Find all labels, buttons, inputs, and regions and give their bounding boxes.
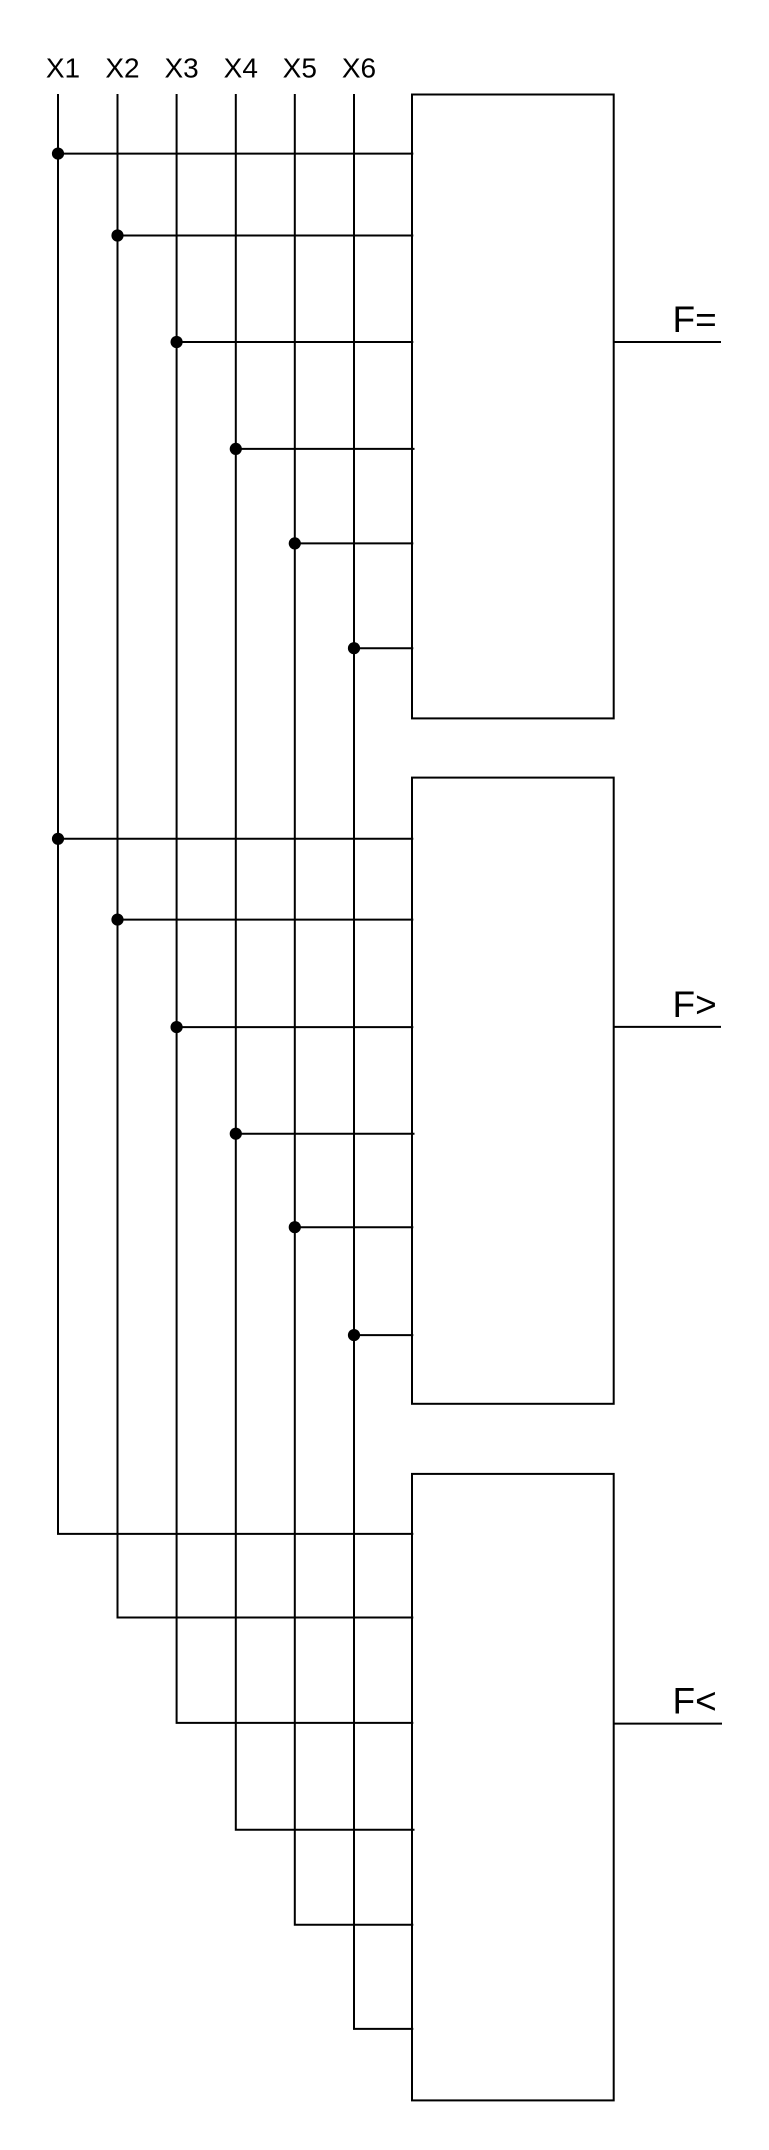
wire X5: vertical bus with elbow into U3 [295,94,414,1925]
junction dot X2/U1 [111,229,123,241]
junction dot X3/U1 [171,336,183,348]
junction dot X6/U1 [348,642,360,654]
wire U3 output [614,1723,722,1725]
junction dot X5/U2 [289,1221,301,1233]
svg-text:X2: X2 [105,52,139,83]
svg-text:F<: F< [673,1681,717,1722]
junction dot X1/U1 [52,148,64,160]
wire U2 input X6 [354,1334,413,1336]
svg-text:F=: F= [673,299,717,340]
svg-text:X3: X3 [164,52,198,83]
svg-text:X6: X6 [342,52,376,83]
svg-text:X1: X1 [46,52,80,83]
wire X1: vertical bus with elbow into U3 [58,94,413,1534]
svg-text:X5: X5 [283,52,317,83]
junction dot X2/U2 [111,914,123,926]
junction dot X6/U2 [348,1329,360,1341]
wire X4: vertical bus with elbow into U3 [236,94,415,1830]
wire U2 input X3 [177,1026,414,1028]
wire U1 input X2 [118,235,414,237]
wire U1 input X3 [177,341,414,343]
wire U1 input X4 [236,448,415,450]
wire U1 input X5 [295,542,414,544]
junction dot X3/U2 [171,1021,183,1033]
junction dot X4/U2 [230,1128,242,1140]
svg-text:F>: F> [673,984,717,1025]
junction dot X5/U1 [289,537,301,549]
wire U2 input X1 [58,838,413,840]
wire X3: vertical bus with elbow into U3 [177,94,414,1723]
comparator block U3 (F&lt;) [412,1474,614,2100]
junction dot X4/U1 [230,443,242,455]
wire U2 input X5 [295,1226,414,1228]
wire U2 input X4 [236,1133,415,1135]
wire U1 input X1 [58,153,413,155]
comparator block U1 (F=) [412,95,614,719]
wire U2 input X2 [118,919,414,921]
wire U2 output [614,1026,721,1028]
wire X6: vertical bus with elbow into U3 [354,94,413,2029]
comparator block U2 (F&gt;) [412,778,614,1404]
wire U1 output [614,341,721,343]
svg-text:X4: X4 [224,52,258,83]
wire U1 input X6 [354,647,413,649]
junction dot X1/U2 [52,833,64,845]
wire X2: vertical bus with elbow into U3 [118,94,414,1618]
